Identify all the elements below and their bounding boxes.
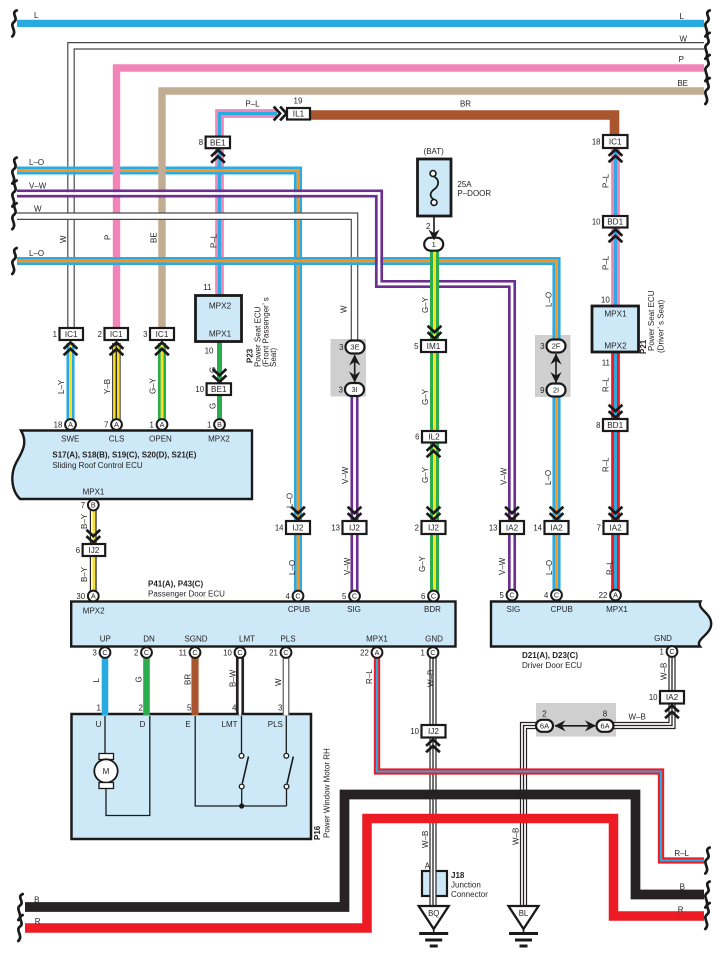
svg-text:A: A xyxy=(114,420,119,429)
svg-text:C: C xyxy=(430,648,435,657)
svg-text:R–L: R–L xyxy=(602,377,611,392)
svg-text:Seat): Seat) xyxy=(269,348,278,367)
junction block IC1 pin 1 xyxy=(53,328,83,340)
junction block BD1 pin 10 xyxy=(592,216,628,228)
wire G from P23 to roof MPX2 pin xyxy=(217,342,222,425)
svg-text:P–L: P–L xyxy=(602,255,611,270)
svg-text:L–O: L–O xyxy=(545,560,554,575)
svg-text:A: A xyxy=(425,862,431,871)
svg-text:IJ2: IJ2 xyxy=(428,727,439,736)
svg-text:5: 5 xyxy=(414,342,419,351)
passenger ECU pin 10(C) LMT xyxy=(223,647,245,658)
junction block IL1 xyxy=(287,108,310,120)
wire G from DN to motor D xyxy=(143,653,150,715)
svg-text:BE1: BE1 xyxy=(210,138,226,147)
svg-text:IA2: IA2 xyxy=(550,523,563,532)
arrow toward 2I xyxy=(550,372,561,383)
svg-text:18: 18 xyxy=(54,420,63,429)
chevron into IM1 pin 5 xyxy=(428,326,442,339)
svg-text:8: 8 xyxy=(199,138,203,147)
svg-text:CPUB: CPUB xyxy=(288,605,310,614)
svg-text:Y–B: Y–B xyxy=(103,379,112,394)
svg-text:25A: 25A xyxy=(457,180,472,189)
svg-text:SIG: SIG xyxy=(347,605,361,614)
wire W-B from driver GND to connector 6A xyxy=(612,657,675,729)
connector shading 2F/2I xyxy=(535,335,571,397)
roof ECU pin 18(A) SWE xyxy=(54,419,76,430)
junction block IC1 pin 3 xyxy=(143,328,174,340)
svg-text:10: 10 xyxy=(592,218,601,227)
break symbol B right xyxy=(705,882,709,908)
passenger ECU pin 11(C) SGND xyxy=(179,647,201,658)
svg-text:10: 10 xyxy=(195,385,204,394)
svg-text:1: 1 xyxy=(53,330,57,339)
svg-text:P–L: P–L xyxy=(245,100,260,109)
svg-text:2: 2 xyxy=(415,523,419,532)
svg-text:C: C xyxy=(295,592,300,601)
svg-text:W: W xyxy=(340,305,349,313)
wire B-Y from roof MPX1 to passenger MPX2 xyxy=(90,505,96,596)
svg-text:6: 6 xyxy=(421,592,425,601)
svg-text:P–L: P–L xyxy=(210,233,219,248)
svg-text:S17(A), S18(B), S19(C), S20(D): S17(A), S18(B), S19(C), S20(D), S21(E) xyxy=(52,451,196,460)
svg-text:BD1: BD1 xyxy=(607,421,623,430)
svg-text:LMT: LMT xyxy=(222,720,238,729)
connector 2F pin 3 xyxy=(540,340,565,353)
svg-text:IJ2: IJ2 xyxy=(293,523,304,532)
svg-text:6: 6 xyxy=(76,546,80,555)
connector 6A pin 2 xyxy=(536,720,553,732)
svg-text:1: 1 xyxy=(207,420,211,429)
roof ECU pin 1(A) OPEN xyxy=(149,419,167,430)
chevron into IL2 pin 6 xyxy=(427,445,441,458)
svg-text:1: 1 xyxy=(97,704,102,713)
svg-text:MPX2: MPX2 xyxy=(604,342,627,351)
svg-text:G–Y: G–Y xyxy=(418,555,427,572)
break symbol R left xyxy=(18,915,22,941)
svg-text:7: 7 xyxy=(81,501,85,510)
connector 2I pin 9 xyxy=(540,384,565,397)
ground point BL xyxy=(509,906,539,946)
arrow toward 3I xyxy=(349,372,360,383)
wire L-Y from IC1 to SWE xyxy=(68,343,73,425)
svg-text:Passenger Door ECU: Passenger Door ECU xyxy=(148,590,225,599)
svg-text:19: 19 xyxy=(294,96,303,105)
svg-text:A: A xyxy=(613,591,618,600)
svg-text:13: 13 xyxy=(489,523,498,532)
svg-text:22: 22 xyxy=(599,591,608,600)
svg-text:7: 7 xyxy=(597,523,601,532)
wire W from PLS to motor xyxy=(283,653,289,715)
svg-text:3: 3 xyxy=(540,342,544,351)
junction connector IA2 pin 10 xyxy=(649,691,684,704)
svg-text:GND: GND xyxy=(654,634,672,643)
svg-text:G: G xyxy=(135,676,144,682)
svg-text:3: 3 xyxy=(143,330,147,339)
connector 3I pin 3 xyxy=(339,383,364,396)
svg-text:22: 22 xyxy=(360,648,369,657)
wire B (black) ground bus xyxy=(25,795,704,908)
svg-text:BQ: BQ xyxy=(428,909,439,918)
chevron into IJ2 pin 13 xyxy=(348,507,362,520)
wire L from UP to motor U xyxy=(102,653,109,715)
svg-text:D: D xyxy=(140,720,146,729)
svg-text:DN: DN xyxy=(143,635,155,644)
chevron into BD1 pin 10 xyxy=(609,230,623,243)
fuse lead to connector oval 1 xyxy=(433,216,435,239)
svg-text:10: 10 xyxy=(649,693,658,702)
svg-text:B–W: B–W xyxy=(229,669,238,687)
break symbol P right xyxy=(705,55,709,81)
wire G-Y from fuse to passenger BDR xyxy=(432,248,438,596)
svg-text:6: 6 xyxy=(415,433,419,442)
driver ECU pin 5(C) SIG xyxy=(499,590,517,601)
svg-text:2: 2 xyxy=(134,648,138,657)
svg-text:R–L: R–L xyxy=(602,457,611,472)
svg-text:C: C xyxy=(352,592,357,601)
arrow toward 3E xyxy=(349,355,360,366)
svg-text:C: C xyxy=(102,648,107,657)
svg-text:Sliding Roof Control ECU: Sliding Roof Control ECU xyxy=(52,461,142,470)
svg-text:MPX1: MPX1 xyxy=(366,635,388,644)
svg-text:IA2: IA2 xyxy=(609,523,622,532)
connector oval 1 below fuse xyxy=(424,238,443,251)
svg-text:W: W xyxy=(274,678,283,686)
svg-text:IL2: IL2 xyxy=(428,433,440,442)
arrow toward 2F xyxy=(550,354,561,365)
passenger ECU pin 5(C) SIG xyxy=(342,591,360,602)
svg-text:IC1: IC1 xyxy=(65,330,78,339)
chevron into IA2 pin 14 xyxy=(550,507,564,520)
junction connector IA2 pin 7 xyxy=(597,521,628,534)
break symbol L right xyxy=(705,10,709,36)
svg-text:UP: UP xyxy=(100,635,111,644)
svg-text:10: 10 xyxy=(223,648,232,657)
passenger ECU pin 1(C) GND xyxy=(420,647,438,658)
svg-text:5: 5 xyxy=(187,704,192,713)
svg-text:C: C xyxy=(237,648,242,657)
svg-text:Power Seat ECU: Power Seat ECU xyxy=(647,290,656,351)
svg-text:G–Y: G–Y xyxy=(421,466,430,483)
svg-text:5: 5 xyxy=(499,591,504,600)
junction block IC1 pin 18 xyxy=(592,135,628,148)
svg-text:IC1: IC1 xyxy=(110,330,123,339)
passenger ECU pin 22(A) MPX1 xyxy=(360,647,382,658)
svg-text:18: 18 xyxy=(592,137,601,146)
link arrows between 6A pair xyxy=(555,725,595,727)
svg-text:3: 3 xyxy=(339,385,343,394)
wire P (pink) bus to IC1 pin2 xyxy=(117,68,705,329)
svg-text:IC1: IC1 xyxy=(156,330,169,339)
svg-text:1: 1 xyxy=(149,420,153,429)
svg-text:U: U xyxy=(96,720,102,729)
svg-text:6A: 6A xyxy=(540,722,550,731)
chevron into IJ2 pin 2 xyxy=(427,507,441,520)
svg-text:3: 3 xyxy=(339,343,343,352)
connector 6A pin 8 xyxy=(597,720,614,732)
svg-text:4: 4 xyxy=(285,592,290,601)
wire W-B from passenger GND to J18 ground xyxy=(430,653,436,908)
svg-text:P: P xyxy=(104,235,113,240)
junction connector IJ2 pin 14 xyxy=(275,521,310,534)
break symbol L-O 2 left xyxy=(12,248,16,274)
svg-text:J18: J18 xyxy=(451,871,465,880)
svg-text:BR: BR xyxy=(184,674,193,685)
svg-text:W: W xyxy=(59,235,68,243)
svg-text:8: 8 xyxy=(603,710,608,719)
svg-text:5: 5 xyxy=(342,592,347,601)
svg-text:MPX2: MPX2 xyxy=(208,435,230,444)
svg-text:L–O: L–O xyxy=(288,560,297,575)
svg-text:BE1: BE1 xyxy=(211,385,227,394)
svg-text:4: 4 xyxy=(232,704,237,713)
svg-text:SIG: SIG xyxy=(507,605,521,614)
svg-text:Power Window Motor RH: Power Window Motor RH xyxy=(323,748,332,838)
svg-text:W–B: W–B xyxy=(421,831,430,848)
svg-text:B: B xyxy=(217,420,222,429)
svg-text:(Driver’ s Seat): (Driver’ s Seat) xyxy=(657,299,666,353)
wire BR from SGND to motor E xyxy=(191,653,198,715)
power seat ECU P23 box xyxy=(196,296,242,342)
wire R-L from passenger MPX1 to right edge xyxy=(375,658,704,863)
break symbol W left xyxy=(12,203,16,229)
svg-text:C: C xyxy=(509,591,514,600)
driver door ECU box xyxy=(491,602,711,647)
svg-text:G–Y: G–Y xyxy=(421,296,430,313)
svg-text:V–W: V–W xyxy=(500,467,509,485)
svg-text:14: 14 xyxy=(275,523,284,532)
svg-text:2: 2 xyxy=(98,330,102,339)
svg-text:L–O: L–O xyxy=(544,470,553,485)
passenger ECU pin 2(C) DN xyxy=(134,647,152,658)
connector shading 3E/3I xyxy=(331,339,367,397)
svg-text:E: E xyxy=(185,720,190,729)
svg-text:Driver Door ECU: Driver Door ECU xyxy=(522,661,582,670)
svg-text:C: C xyxy=(192,648,197,657)
svg-text:2: 2 xyxy=(139,704,144,713)
chevron into IA2 pin 10 xyxy=(665,706,679,719)
svg-text:CLS: CLS xyxy=(109,435,125,444)
svg-text:IL1: IL1 xyxy=(293,110,305,119)
svg-text:PLS: PLS xyxy=(268,720,283,729)
svg-text:L–O: L–O xyxy=(29,158,44,167)
svg-text:W–B: W–B xyxy=(629,713,646,722)
svg-text:P16: P16 xyxy=(313,825,322,840)
junction block IJ2 pin 6 xyxy=(76,544,105,556)
svg-text:OPEN: OPEN xyxy=(149,435,172,444)
svg-text:1: 1 xyxy=(420,648,424,657)
svg-text:A: A xyxy=(68,420,73,429)
svg-text:L–O: L–O xyxy=(286,493,295,508)
arrow toward 6A pin 2 xyxy=(555,720,566,731)
svg-text:3I: 3I xyxy=(351,385,357,394)
svg-text:G–Y: G–Y xyxy=(149,377,158,394)
svg-text:IA2: IA2 xyxy=(666,693,679,702)
svg-text:BR: BR xyxy=(460,100,471,109)
svg-text:3: 3 xyxy=(92,648,96,657)
svg-text:V–W: V–W xyxy=(29,182,47,191)
svg-text:L–O: L–O xyxy=(545,292,554,307)
svg-text:R–L: R–L xyxy=(606,560,615,575)
svg-text:1: 1 xyxy=(659,647,663,656)
chevron into IC1 pin 2 xyxy=(110,343,124,356)
break symbol L-O 1 left xyxy=(12,158,16,184)
sliding roof control ECU box xyxy=(12,431,252,500)
roof ECU pin 1(B) MPX2 xyxy=(207,419,225,430)
passenger ECU pin 30(A) MPX2 xyxy=(76,591,98,602)
svg-text:11: 11 xyxy=(203,283,212,292)
link arrows between 2F and 2I xyxy=(555,354,557,383)
svg-text:MPX1: MPX1 xyxy=(209,330,232,339)
svg-text:BE: BE xyxy=(150,232,159,243)
limit switch LMT xyxy=(239,716,248,809)
ground point BQ xyxy=(419,906,449,946)
svg-text:IJ2: IJ2 xyxy=(88,546,99,555)
chevron into IA2 pin 13 xyxy=(505,507,519,520)
svg-text:L: L xyxy=(680,12,685,21)
svg-text:IJ2: IJ2 xyxy=(428,523,439,532)
junction connector IJ2 pin 10 xyxy=(410,725,445,738)
wire B-W from LMT to motor xyxy=(237,653,242,715)
svg-text:D21(A), D23(C): D21(A), D23(C) xyxy=(522,651,578,660)
junction connector IJ2 pin 2 xyxy=(415,521,446,534)
junction connector IA2 pin 14 xyxy=(533,521,568,534)
svg-text:14: 14 xyxy=(533,523,542,532)
svg-text:IM1: IM1 xyxy=(427,342,441,351)
svg-text:P–L: P–L xyxy=(602,173,611,188)
svg-text:IJ2: IJ2 xyxy=(349,523,360,532)
svg-text:R–L: R–L xyxy=(365,669,374,684)
svg-text:MPX1: MPX1 xyxy=(604,310,627,319)
break symbol R-L right xyxy=(705,848,709,874)
svg-text:W: W xyxy=(679,35,687,44)
svg-text:C: C xyxy=(283,648,288,657)
wire W (white) bus to connector 3E xyxy=(17,213,358,342)
svg-text:W–B: W–B xyxy=(660,663,669,680)
passenger ECU pin 21(C) PLS xyxy=(269,647,291,658)
svg-text:MPX1: MPX1 xyxy=(606,605,628,614)
passenger ECU pin 6(C) BDR xyxy=(421,591,439,602)
junction block IC1 pin 2 xyxy=(98,328,128,340)
pulse switch PLS xyxy=(284,716,293,806)
svg-text:MPX2: MPX2 xyxy=(83,607,105,616)
svg-text:Junction: Junction xyxy=(451,881,481,890)
connector 3E pin 3 xyxy=(339,341,364,354)
svg-text:1: 1 xyxy=(432,240,436,249)
wire P-L from IC1 pin18 to P21 xyxy=(613,148,619,306)
junction block BD1 pin 8 xyxy=(596,419,627,431)
junction block IL2 pin 6 xyxy=(415,431,446,443)
svg-text:MPX2: MPX2 xyxy=(209,302,232,311)
passenger ECU pin 3(C) UP xyxy=(92,647,110,658)
svg-text:B: B xyxy=(34,896,39,905)
chevron into IC1 pin 18 xyxy=(609,150,623,163)
svg-text:C: C xyxy=(669,647,674,656)
chevron into IC1 pin 1 xyxy=(64,343,78,356)
svg-text:L: L xyxy=(92,678,101,683)
svg-text:L–Y: L–Y xyxy=(57,379,66,394)
svg-text:CPUB: CPUB xyxy=(551,605,573,614)
chevron into IL1 xyxy=(274,107,287,121)
svg-text:IA2: IA2 xyxy=(506,523,519,532)
svg-text:G–Y: G–Y xyxy=(421,388,430,405)
break symbol B left xyxy=(18,894,22,920)
svg-text:B: B xyxy=(91,501,96,510)
chevron into IJ2 pin 14 xyxy=(291,507,305,520)
svg-text:2F: 2F xyxy=(552,342,561,351)
chevron into IJ2 pin 6 xyxy=(86,530,100,543)
svg-text:IC1: IC1 xyxy=(609,137,622,146)
junction block BE1 pin 10 xyxy=(195,383,231,395)
fuse element symbol xyxy=(430,171,438,206)
svg-text:V–W: V–W xyxy=(498,557,507,575)
svg-text:L–O: L–O xyxy=(29,249,44,258)
arrow into oval 1 xyxy=(428,230,439,241)
wire R-L from P21 to driver MPX1 xyxy=(613,352,619,596)
wire BE (beige) bus to IC1 pin3 xyxy=(162,91,704,329)
wire G-Y from IC1 to OPEN xyxy=(159,343,164,425)
svg-text:2I: 2I xyxy=(553,386,559,395)
svg-text:2: 2 xyxy=(426,222,431,231)
svg-text:A: A xyxy=(91,592,96,601)
svg-text:11: 11 xyxy=(602,359,611,368)
svg-text:4: 4 xyxy=(544,591,549,600)
svg-text:3E: 3E xyxy=(350,343,359,352)
junction block BE1 pin 8 xyxy=(199,137,230,149)
motor M symbol xyxy=(94,716,150,816)
svg-text:B–Y: B–Y xyxy=(80,566,89,582)
svg-text:21: 21 xyxy=(269,648,278,657)
arrow toward 6A pin 8 xyxy=(585,720,596,731)
svg-text:8: 8 xyxy=(596,421,600,430)
svg-text:SWE: SWE xyxy=(61,435,79,444)
wire V-W from 3I to passenger SIG xyxy=(352,394,357,596)
passenger door ECU box xyxy=(71,602,455,647)
wire BR from IL1 to IC1 pin18 xyxy=(310,115,615,136)
break symbol V-W left xyxy=(12,181,16,207)
wire L-O bus 1 to passenger CPUB xyxy=(17,168,301,596)
svg-text:BDR: BDR xyxy=(424,605,441,614)
wire P-L from P23 to IL1 xyxy=(217,111,277,296)
wire V-W bus to driver SIG xyxy=(17,191,515,596)
svg-text:P–DOOR: P–DOOR xyxy=(457,189,491,198)
junction connector IJ2 pin 13 xyxy=(331,521,366,534)
roof ECU pin 7(B) MPX1 xyxy=(81,500,99,511)
break symbol L left xyxy=(12,10,16,36)
svg-text:(BAT): (BAT) xyxy=(424,147,445,156)
svg-text:2: 2 xyxy=(542,710,547,719)
power window motor P16 box xyxy=(72,714,312,839)
svg-text:A: A xyxy=(160,420,165,429)
svg-text:10: 10 xyxy=(601,296,610,305)
svg-text:C: C xyxy=(144,648,149,657)
junction block IM1 pin 5 xyxy=(414,340,446,352)
svg-text:P41(A), P43(C): P41(A), P43(C) xyxy=(148,580,203,589)
junction connector IA2 pin 13 xyxy=(489,521,524,534)
motor internal E bus wire xyxy=(195,716,286,806)
wire L-O from 2I to driver CPUB xyxy=(554,394,559,596)
svg-text:11: 11 xyxy=(179,648,187,657)
svg-text:L: L xyxy=(34,11,39,20)
link arrows between 3E and 3I xyxy=(354,355,356,382)
chevron into BE1 pin 10 xyxy=(213,369,227,382)
wire W-B from 6A to BL ground xyxy=(521,723,538,909)
svg-text:C: C xyxy=(431,592,436,601)
power seat ECU P21 box xyxy=(592,306,639,352)
roof ECU pin 7(A) CLS xyxy=(104,419,122,430)
svg-text:7: 7 xyxy=(104,420,108,429)
svg-text:V–W: V–W xyxy=(341,466,350,484)
